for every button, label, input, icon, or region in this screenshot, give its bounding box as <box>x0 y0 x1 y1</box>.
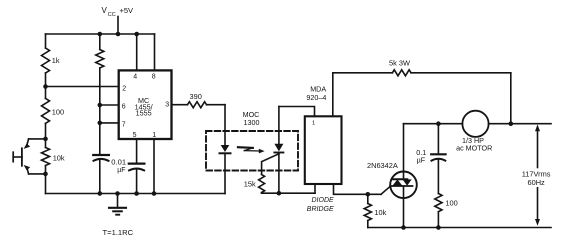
capacitor pin5 bypass <box>129 163 145 165</box>
wire node to 10k <box>45 139 47 148</box>
wire pin 2 <box>46 86 119 88</box>
resistor R timing <box>96 50 104 69</box>
diode LED in MOC <box>221 145 230 152</box>
svg-text:µF: µF <box>117 167 125 174</box>
resistor 5k 3W <box>392 70 411 76</box>
node junction dot pin1-rail <box>152 191 157 196</box>
op-amp U2 MOC1300 optocoupler dashed box <box>206 131 298 171</box>
pushbutton S1 handle <box>13 156 22 158</box>
wire Vcc stub <box>117 17 119 35</box>
wire photo-triac gate <box>262 154 279 175</box>
svg-text:390: 390 <box>190 92 202 101</box>
svg-text:5k 3W: 5k 3W <box>389 58 410 67</box>
wire pushbutton bottom branch <box>29 173 46 175</box>
svg-text:100: 100 <box>445 199 457 208</box>
wire triac gate lead <box>381 186 390 194</box>
wire top AC rail left <box>333 72 393 74</box>
svg-text:BRIDGE: BRIDGE <box>307 206 334 213</box>
wire motor line <box>404 123 463 125</box>
svg-text:T=1.1RC: T=1.1RC <box>103 228 134 237</box>
motor M 1/3 HP <box>462 111 488 137</box>
wire bridge bottom-right to gate <box>334 184 382 194</box>
svg-text:60Hz: 60Hz <box>528 178 546 187</box>
svg-text:V: V <box>102 6 108 15</box>
wire node to 100 <box>45 87 47 99</box>
wire pin 5 <box>136 139 138 163</box>
wire LED cathode to ground rail <box>224 153 226 193</box>
svg-text:µF: µF <box>417 155 426 164</box>
svg-text:+5V: +5V <box>120 6 134 15</box>
wire left column top <box>45 34 47 48</box>
wire MOC to bridge top-left <box>279 107 315 117</box>
node junction dot motor-toprail <box>509 121 514 126</box>
pushbutton S1 top contact <box>24 144 31 149</box>
wire MT1 rail <box>261 192 263 195</box>
wire pushbutton top branch <box>29 138 46 140</box>
wire bottom neutral rail <box>368 227 551 229</box>
wire pin 8 <box>154 34 156 70</box>
svg-text:1k: 1k <box>52 56 60 65</box>
svg-text:ac MOTOR: ac MOTOR <box>456 143 492 152</box>
svg-text:6: 6 <box>122 104 126 111</box>
wire top AC rail right <box>411 72 511 74</box>
wire pin 1 <box>153 139 155 194</box>
svg-text:5: 5 <box>133 132 137 139</box>
resistor 15k <box>259 175 265 193</box>
wire 10k bottom to neutral rail <box>367 221 369 228</box>
wire bridge bottom-left to MT1 rail <box>314 184 316 193</box>
node junction dot pin7 <box>98 121 103 126</box>
resistor 1k <box>42 48 50 73</box>
node 117Vrms source arrow <box>537 128 539 168</box>
diode bridge MDA920-4 box <box>305 116 342 184</box>
wire bridge top-right to top rail <box>332 73 334 117</box>
svg-text:DIODE: DIODE <box>312 197 335 204</box>
wire 10k top <box>367 194 369 203</box>
svg-text:1: 1 <box>312 120 315 126</box>
node junction dot snubber-rail <box>436 225 441 230</box>
node junction dot pushbutton bottom <box>43 172 48 177</box>
wire 10k bottom segment <box>45 166 47 174</box>
svg-text:920–4: 920–4 <box>306 93 326 102</box>
wire 100 to pushbutton node <box>45 123 47 138</box>
wire cap to ground rail <box>99 160 101 194</box>
node Vcc label <box>102 6 134 18</box>
svg-text:7: 7 <box>122 121 126 128</box>
node junction dot cap-rail <box>98 191 103 196</box>
wire timing column top <box>99 34 101 50</box>
capacitor 0.1uF snubber <box>437 124 439 154</box>
svg-text:0.01: 0.01 <box>111 158 126 167</box>
node junction dot pin5cap-rail <box>134 191 139 196</box>
resistor 390 <box>188 102 207 108</box>
resistor 100 snubber <box>435 194 442 212</box>
node junction dot triac MT1 <box>277 191 282 196</box>
node junction dot triac-rail <box>401 225 406 230</box>
svg-text:10k: 10k <box>53 153 65 162</box>
wire timing column <box>99 68 101 154</box>
wire snubber mid <box>437 159 439 193</box>
svg-text:1555: 1555 <box>136 108 152 117</box>
svg-text:4: 4 <box>133 73 137 80</box>
node junction dot gate-10k <box>366 192 371 197</box>
wire snubber bottom <box>437 212 439 228</box>
wire 1k to node <box>45 73 47 87</box>
wire pin 7 <box>100 122 119 124</box>
wire pin 3 output <box>172 104 188 106</box>
svg-text:2N6342A: 2N6342A <box>367 161 398 170</box>
node junction dot pin6 <box>98 103 103 108</box>
wire pin 4 <box>136 34 138 70</box>
wire motor to ac source <box>489 123 551 125</box>
pushbutton S1 bottom contact <box>24 165 31 170</box>
svg-text:1: 1 <box>152 132 156 139</box>
node junction dot rail-pin4 <box>134 32 139 37</box>
resistor 10k right <box>364 204 371 221</box>
ground <box>115 191 120 196</box>
node light arrow <box>238 146 253 149</box>
wire pin 6 <box>100 104 119 106</box>
svg-text:3: 3 <box>165 101 169 108</box>
capacitor C timing <box>93 154 109 156</box>
node junction dot rail-timing <box>98 32 103 37</box>
resistor 10k left <box>42 148 50 166</box>
svg-text:10k: 10k <box>374 208 386 217</box>
svg-text:8: 8 <box>152 73 156 80</box>
node junction dot snubber tap <box>436 121 441 126</box>
transistor photo-triac in MOC <box>278 107 280 144</box>
pushbutton S1 actuator bar <box>21 148 23 166</box>
wire top +5V rail <box>46 33 155 35</box>
wire left column to ground rail <box>45 174 47 194</box>
svg-text:2: 2 <box>122 85 126 92</box>
node junction dot pushbutton top <box>43 137 48 142</box>
svg-text:1300: 1300 <box>244 118 260 127</box>
svg-text:100: 100 <box>52 108 64 117</box>
node junction dot trigger divider <box>43 84 48 89</box>
wire bottom ground rail <box>46 193 226 195</box>
resistor 100 <box>42 98 50 123</box>
op-amp U1 MC1455 timer box <box>119 70 172 139</box>
svg-text:CC: CC <box>108 12 116 18</box>
wire 390 to LED <box>207 104 226 106</box>
svg-text:15k: 15k <box>244 180 256 189</box>
node junction dot rail-Vcc <box>116 32 121 37</box>
